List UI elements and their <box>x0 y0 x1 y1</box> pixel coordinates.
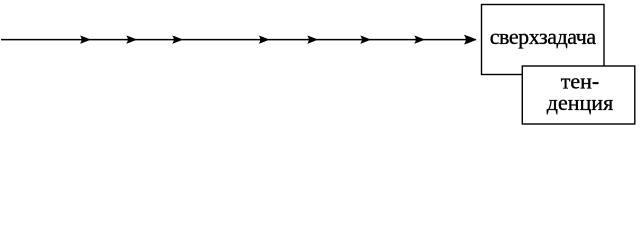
wire: horizontal arrow line <box>1 39 476 41</box>
svg-text:денция: денция <box>547 90 613 115</box>
arrowhead 3 <box>172 36 183 44</box>
arrowhead 7 <box>414 36 425 44</box>
arrowhead 4 <box>259 36 270 44</box>
arrowhead 6 <box>360 36 371 44</box>
svg-text:сверхзадача: сверхзадача <box>490 24 597 49</box>
arrowhead 5 <box>307 36 318 44</box>
arrowhead 8 (final, at box) <box>464 35 477 45</box>
arrowhead 2 <box>126 36 137 44</box>
box: тенденция (overlapping) <box>522 66 635 124</box>
arrowhead 1 <box>80 36 91 44</box>
box: сверхзадача <box>482 5 605 75</box>
